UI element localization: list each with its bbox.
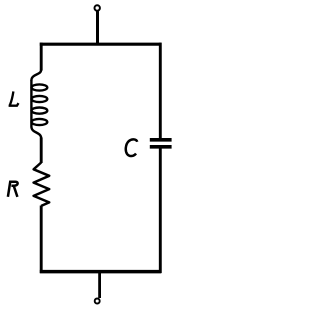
label L [9, 91, 19, 105]
resistor R [34, 163, 50, 206]
wire top rail [40, 43, 162, 46]
wire left branch upper [40, 43, 43, 71]
label C [126, 139, 137, 156]
capacitor C [150, 140, 172, 147]
wire bottom rail [40, 270, 162, 274]
inductor L [31, 70, 47, 139]
wire right branch lower [159, 149, 162, 274]
wire between L and R [40, 138, 43, 164]
top terminal [95, 5, 100, 44]
wire left branch lower [40, 206, 43, 274]
bottom terminal [95, 272, 100, 304]
label R [8, 181, 18, 197]
wire right branch upper [159, 43, 162, 139]
